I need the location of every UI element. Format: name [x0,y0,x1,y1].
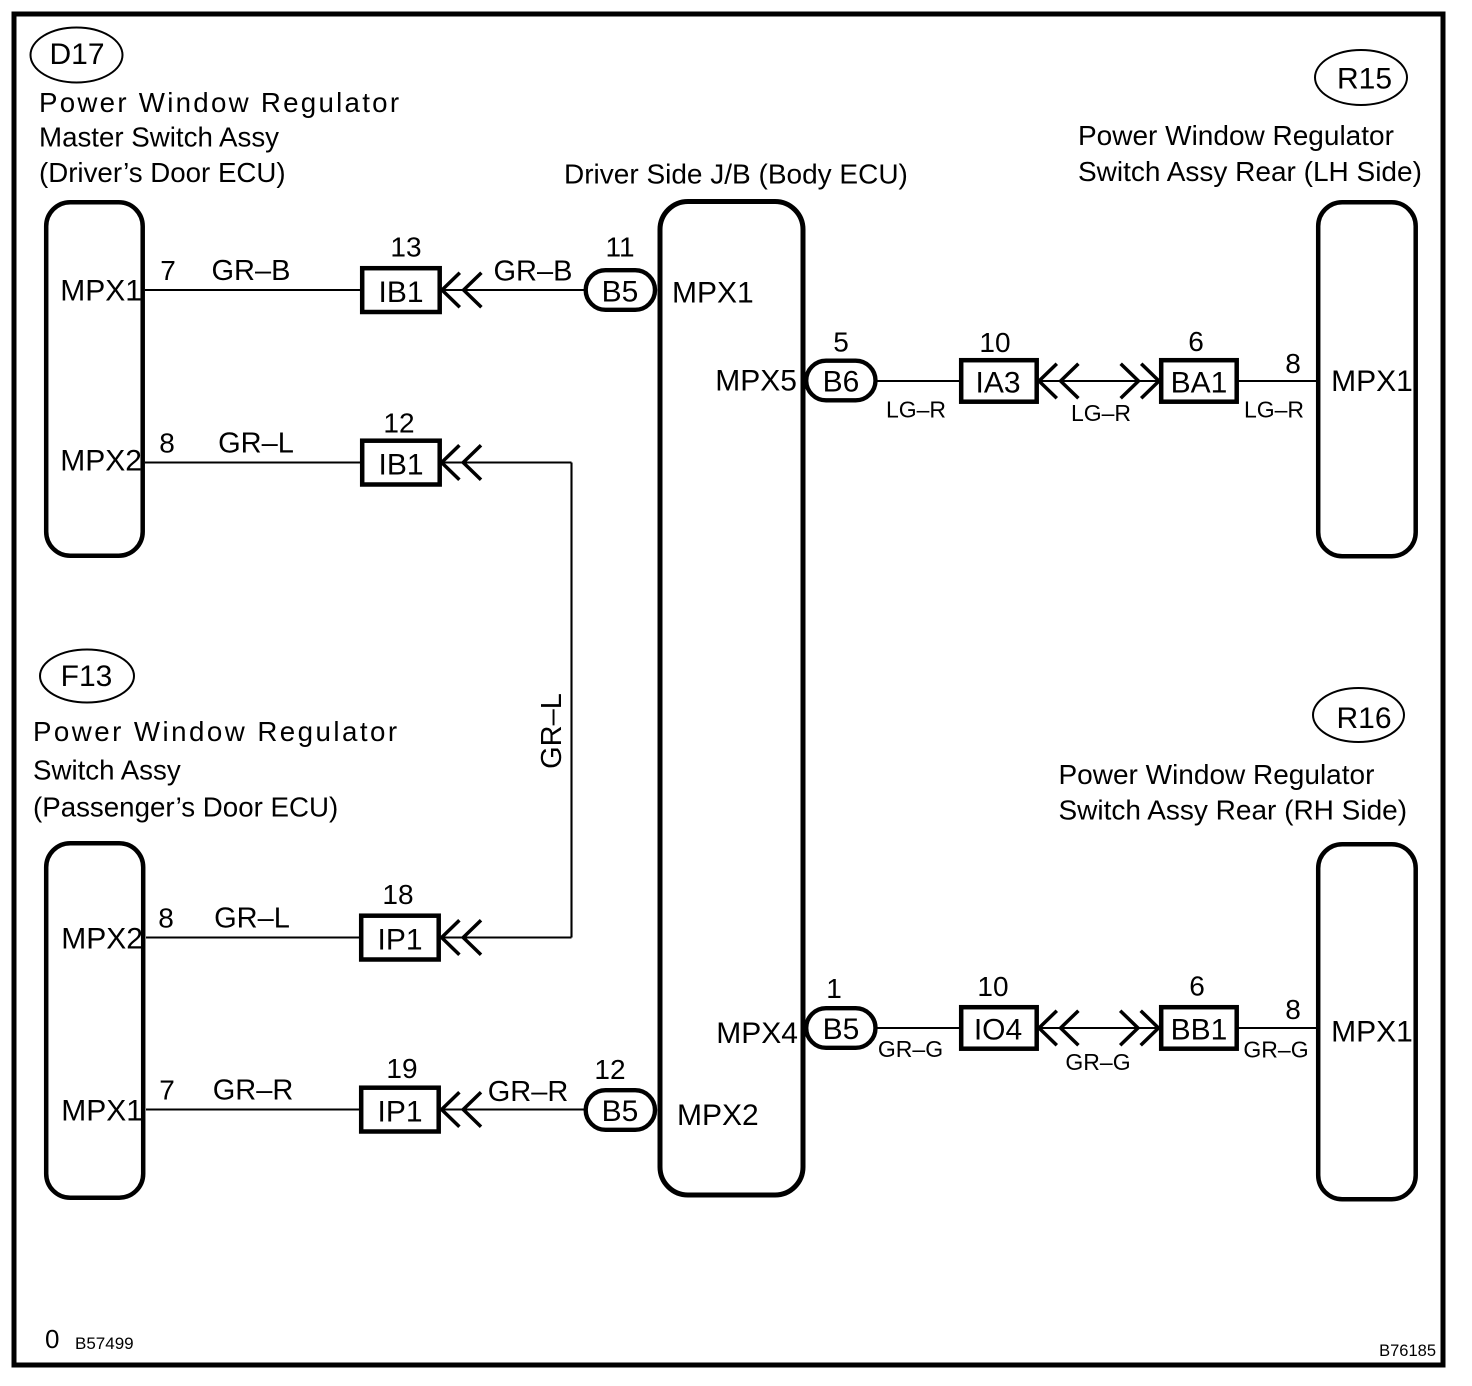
label 10 above IO4 [977,971,1008,1002]
svg-text:B76185: B76185 [1379,1342,1436,1360]
svg-text:7: 7 [160,255,176,286]
svg-text:BA1: BA1 [1171,367,1228,400]
svg-text:GR–L: GR–L [218,428,294,460]
wire pin7 F13 to IP1(19) [146,1108,362,1110]
svg-text:GR–G: GR–G [1243,1037,1308,1063]
connector R16 body [1318,844,1416,1199]
wire label GR-B at B5 [494,256,573,288]
svg-text:7: 7 [159,1075,175,1106]
svg-text:R16: R16 [1336,702,1391,735]
svg-text:GR–L: GR–L [214,903,290,935]
junction box IB1 (12) [362,441,440,485]
connector D17 body [46,202,143,556]
svg-text:B5: B5 [602,276,639,309]
connector F13 caption line3 [33,792,338,823]
wire label GR-R at B5 [488,1076,569,1108]
svg-text:Switch Assy Rear (LH Side): Switch Assy Rear (LH Side) [1078,156,1422,187]
wire B5(1) to IO4(10) [877,1027,961,1029]
svg-text:MPX1: MPX1 [1331,365,1413,398]
connector F13 ellipse [40,650,134,703]
junction box IP1 (18) [361,916,439,960]
svg-text:11: 11 [605,232,634,263]
oval connector B5 (1) [806,1008,875,1048]
block pin label MPX4 [716,1017,798,1050]
svg-text:MPX1: MPX1 [61,1095,143,1128]
pin number 8 R15 [1285,348,1301,379]
svg-text:IO4: IO4 [974,1014,1022,1047]
wire label LG-R left [886,397,946,423]
junction box IO4 (10) [961,1007,1036,1048]
block pin label MPX1 [672,277,754,310]
connector R15 body [1318,202,1416,556]
svg-text:Power Window Regulator: Power Window Regulator [1059,759,1375,790]
svg-text:IP1: IP1 [377,1096,422,1129]
svg-text:0: 0 [45,1324,59,1354]
svg-text:GR–G: GR–G [878,1036,943,1062]
footer code B57499 [75,1334,134,1353]
wire pin7 D17 to IB1(13) [145,289,362,291]
svg-text:BB1: BB1 [1171,1014,1228,1047]
svg-text:6: 6 [1188,326,1204,357]
pin label MPX1 R15 [1331,365,1413,398]
label 13 above IB1 [390,232,421,263]
svg-text:6: 6 [1189,971,1205,1002]
oval connector B6 (5) [806,361,875,401]
svg-text:(Driver’s Door ECU): (Driver’s Door ECU) [39,157,286,188]
connector F13 caption line2 [33,755,181,786]
label 12 above IB1 [383,408,414,439]
svg-text:MPX4: MPX4 [716,1017,798,1050]
block pin label MPX2 [677,1099,759,1132]
wire B6(5) to IA3(10) [877,380,961,382]
svg-text:8: 8 [158,903,174,934]
wire label GR-R F13 [213,1075,294,1107]
label 5 above B6 [833,327,849,358]
svg-text:10: 10 [977,971,1008,1002]
wire BB1 to pin8 R16 [1237,1027,1318,1029]
arrow chevrons at IP1 (18) [442,920,481,955]
oval connector B5 (11) [586,270,655,310]
pin label MPX1 F13 [61,1095,143,1128]
connector R15 caption line1 [1078,120,1394,151]
connector R16 caption line1 [1059,759,1375,790]
pin label MPX2 D17 [60,445,142,478]
label 6 above BB1 [1189,971,1205,1002]
svg-text:B57499: B57499 [75,1334,134,1353]
connector R16 caption line2 [1059,795,1408,826]
svg-text:8: 8 [1285,348,1301,379]
wire IA3 to BA1 [1037,380,1161,382]
wire label GR-G centre [1065,1049,1130,1075]
arrow chevrons at IB1 (13) [442,273,481,308]
oval connector B5 (12) [586,1090,655,1130]
svg-text:Power Window Regulator: Power Window Regulator [39,87,401,118]
svg-text:MPX1: MPX1 [672,277,754,310]
junction box IB1 (13) [362,268,440,312]
svg-text:12: 12 [383,408,414,439]
junction box IA3 (10) [961,360,1036,402]
svg-text:5: 5 [833,327,849,358]
svg-text:GR–R: GR–R [213,1075,294,1107]
wire label LG-R right [1244,397,1304,423]
connector R15 ellipse [1315,50,1407,105]
svg-text:19: 19 [386,1053,417,1084]
svg-text:Driver Side J/B (Body ECU): Driver Side J/B (Body ECU) [564,159,908,190]
svg-text:Switch Assy Rear (RH Side): Switch Assy Rear (RH Side) [1059,795,1408,826]
svg-text:IP1: IP1 [377,924,422,957]
connector R15 caption line2 [1078,156,1422,187]
label 19 above IP1 [386,1053,417,1084]
wire label GR-L vertical [536,693,568,769]
svg-text:13: 13 [390,232,421,263]
svg-text:Power Window Regulator: Power Window Regulator [1078,120,1394,151]
pin number 7 F13 [159,1075,175,1106]
svg-text:18: 18 [382,879,413,910]
label 11 above B5 [605,232,634,263]
svg-text:B6: B6 [823,366,860,399]
arrow chevrons left of BA1 [1121,364,1159,399]
junction block Driver Side J/B body [660,202,803,1196]
pin label MPX2 F13 [61,923,143,956]
svg-text:LG–R: LG–R [886,397,946,423]
wire pin8 F13 to IP1(18) [146,936,362,938]
svg-text:MPX1: MPX1 [1331,1016,1413,1049]
label 12 above B5 [594,1054,625,1085]
junction box IP1 (19) [361,1088,439,1132]
connector F13 body [46,843,143,1197]
arrow chevrons at IB1 (12) [442,445,481,480]
wire label GR-G right [1243,1037,1308,1063]
svg-text:Master Switch Assy: Master Switch Assy [39,122,279,153]
svg-text:LG–R: LG–R [1244,397,1304,423]
svg-text:GR–R: GR–R [488,1076,569,1108]
wire vertical GR-L to IP1(18) chevron [440,936,572,938]
svg-text:LG–R: LG–R [1071,400,1131,426]
svg-text:MPX2: MPX2 [677,1099,759,1132]
svg-text:GR–G: GR–G [1065,1049,1130,1075]
svg-text:GR–L: GR–L [536,693,568,769]
block pin label MPX5 [715,365,797,398]
svg-text:8: 8 [1285,994,1301,1025]
pin label MPX1 D17 [60,275,142,308]
wire BA1 to pin8 R15 [1237,380,1318,382]
wire label GR-L F13 [214,903,290,935]
wire B5(11) to IB1(13) chevron [440,289,586,291]
svg-text:8: 8 [159,428,175,459]
svg-text:Power Window Regulator: Power Window Regulator [33,716,400,747]
wire label GR-L [218,428,294,460]
footer mark 0 [45,1324,59,1354]
connector D17 ellipse [31,28,123,83]
junction box BB1 (6) [1161,1007,1237,1048]
svg-text:1: 1 [826,973,842,1004]
svg-text:B5: B5 [823,1013,860,1046]
arrow chevrons right of IA3 [1039,364,1078,399]
wire pin8 D17 to IB1(12) [145,461,362,463]
svg-text:B5: B5 [602,1095,639,1128]
pin number 8 R16 [1285,994,1301,1025]
svg-text:GR–B: GR–B [212,255,291,287]
svg-text:IB1: IB1 [378,276,423,309]
pin number 8 F13 [158,903,174,934]
svg-text:MPX5: MPX5 [715,365,797,398]
wire label GR-G left [878,1036,943,1062]
svg-text:Switch Assy: Switch Assy [33,755,181,786]
wire vertical GR-L [570,463,572,938]
svg-text:GR–B: GR–B [494,256,573,288]
svg-text:R15: R15 [1337,63,1392,96]
wire B5(12) to IP1(19) chevron [440,1108,586,1110]
wire IO4 to BB1 [1037,1027,1161,1029]
svg-text:MPX2: MPX2 [61,923,143,956]
svg-text:10: 10 [979,327,1010,358]
wire label GR-B [212,255,291,287]
pin number 7 D17 [160,255,176,286]
junction block title [564,159,908,190]
pin number 8 D17 [159,428,175,459]
svg-text:IB1: IB1 [378,449,423,482]
arrow chevrons right of IO4 [1039,1011,1078,1046]
svg-text:IA3: IA3 [975,367,1020,400]
svg-text:D17: D17 [49,38,104,71]
wire label LG-R centre [1071,400,1131,426]
label 1 above B5 [826,973,842,1004]
arrow chevrons left of BB1 [1120,1011,1158,1046]
svg-text:12: 12 [594,1054,625,1085]
svg-text:F13: F13 [61,660,113,693]
connector D17 caption line3 [39,157,286,188]
connector D17 caption line1 [39,87,401,118]
label 10 above IA3 [979,327,1010,358]
pin label MPX1 R16 [1331,1016,1413,1049]
connector F13 caption line1 [33,716,400,747]
footer code B76185 [1379,1342,1436,1360]
svg-text:(Passenger’s Door ECU): (Passenger’s Door ECU) [33,792,338,823]
label 18 above IP1 [382,879,413,910]
arrow chevrons at IP1 (19) [442,1092,481,1127]
wire IB1(12) chevron to vertical GR-L [440,461,572,463]
svg-text:MPX1: MPX1 [60,275,142,308]
connector D17 caption line2 [39,122,279,153]
label 6 above BA1 [1188,326,1204,357]
svg-text:MPX2: MPX2 [60,445,142,478]
junction box BA1 (6) [1161,360,1237,402]
connector R16 ellipse [1313,688,1404,742]
